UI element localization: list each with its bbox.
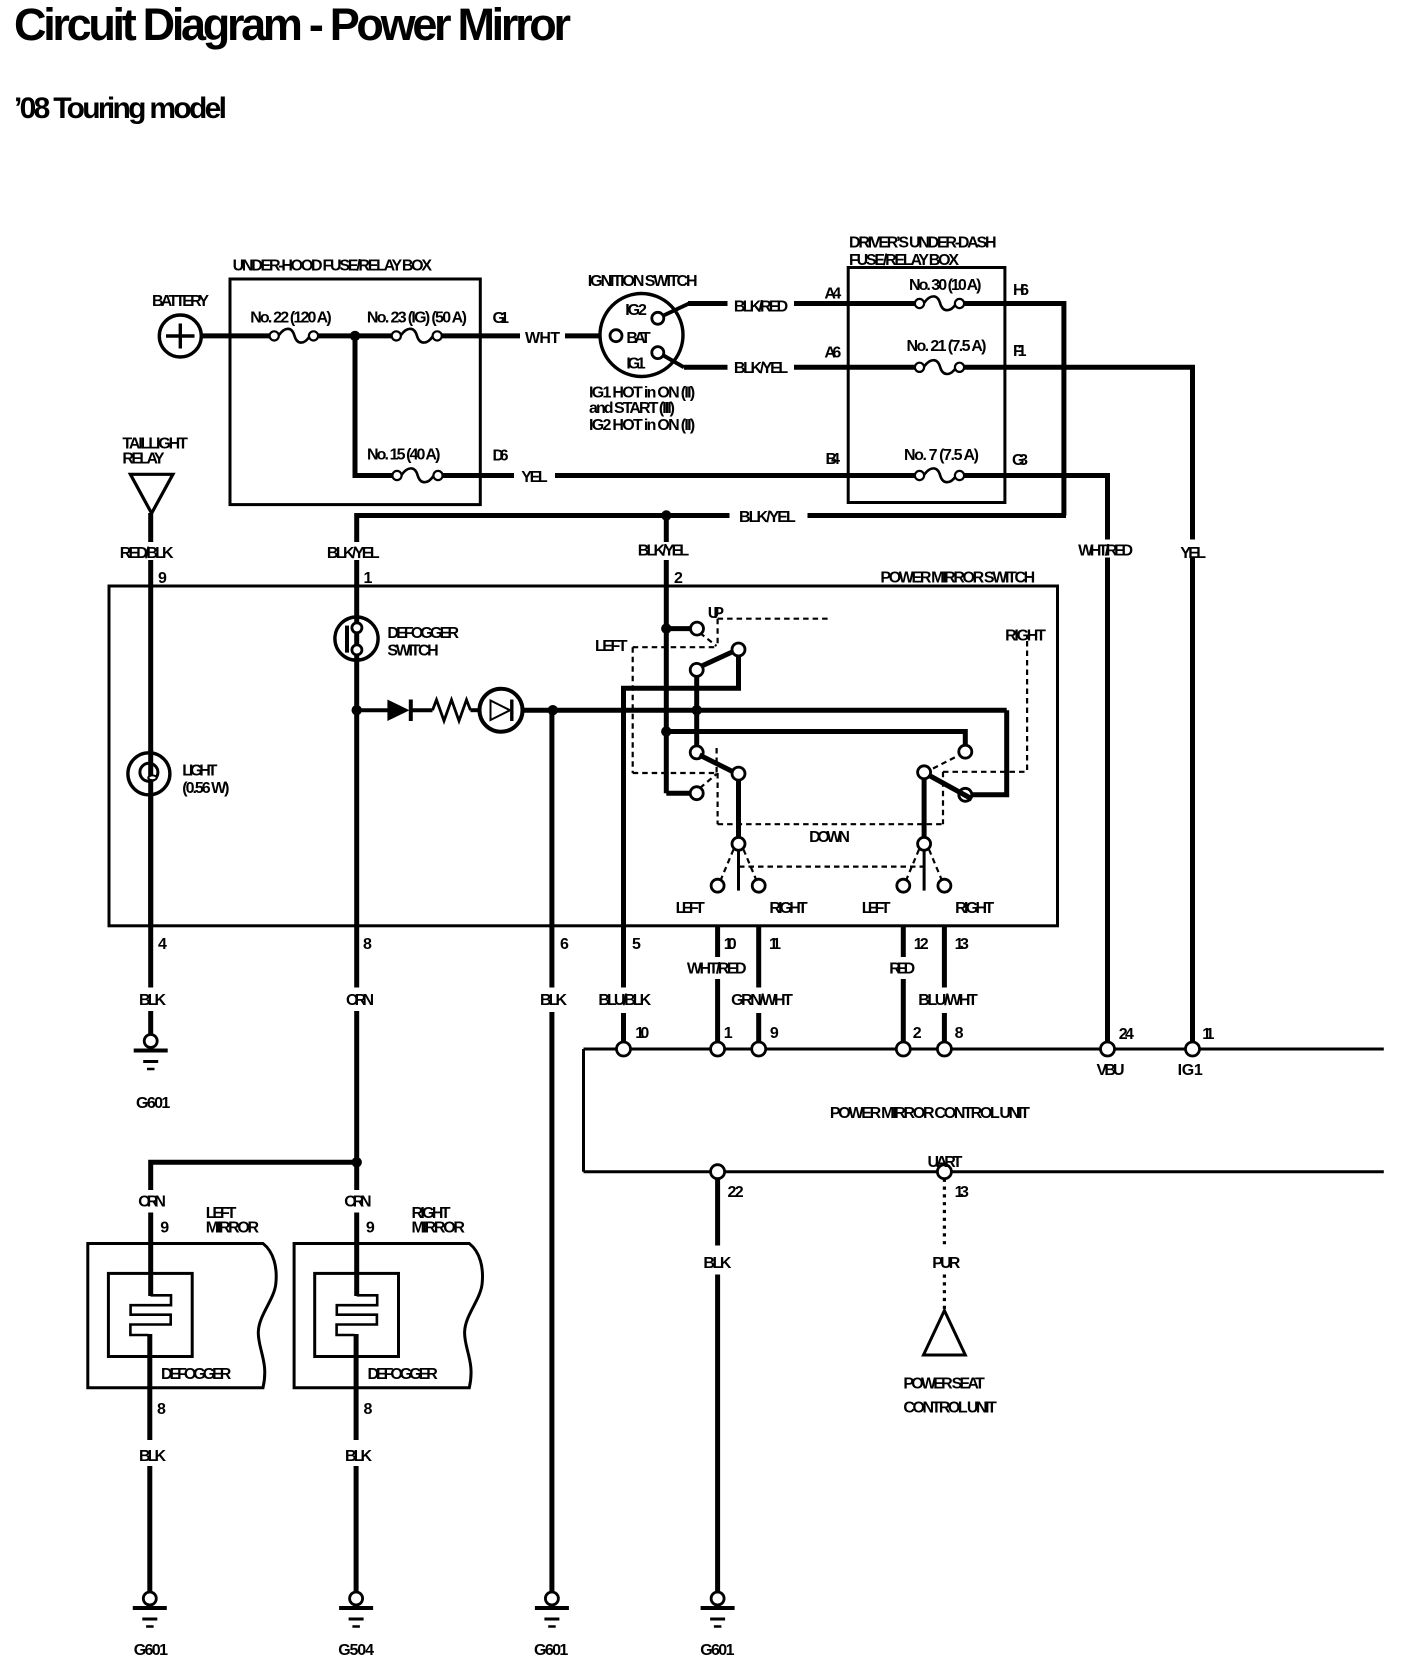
- svg-text:4: 4: [158, 936, 167, 953]
- svg-text:9: 9: [366, 1220, 375, 1237]
- terminal pin24 VBU (control unit): [1101, 1042, 1115, 1056]
- contact C (upper arm pivot): [690, 663, 703, 676]
- left mirror defogger element box: [108, 1273, 192, 1356]
- wire LED line corner to contact F': [972, 710, 1007, 795]
- svg-text:LIGHT: LIGHT: [182, 762, 217, 779]
- fuse No.22 (120 A): [270, 329, 319, 343]
- ground G601 (light): [134, 1035, 168, 1070]
- svg-text:ORN: ORN: [344, 1194, 371, 1211]
- svg-text:11: 11: [1202, 1026, 1214, 1043]
- power mirror switch box: [109, 586, 1058, 926]
- svg-text:CONTROL UNIT: CONTROL UNIT: [903, 1400, 997, 1417]
- svg-text:WHT: WHT: [525, 330, 560, 347]
- ground G601 (pin22): [701, 1592, 735, 1627]
- contact H4 RIGHT: [938, 879, 951, 892]
- wire fuse23-junction down to fuse No.15: [353, 336, 358, 476]
- svg-text:RIGHT: RIGHT: [1005, 628, 1046, 645]
- defogger switch: [335, 617, 378, 660]
- svg-text:’08 Touring model: ’08 Touring model: [14, 92, 227, 125]
- svg-text:LEFT: LEFT: [862, 900, 891, 917]
- terminal pin1 (control unit): [711, 1042, 725, 1056]
- svg-text:2: 2: [674, 570, 683, 587]
- dashed selector V (left): [721, 850, 734, 881]
- svg-text:BATTERY: BATTERY: [152, 293, 209, 310]
- svg-text:No. 30 (10 A): No. 30 (10 A): [909, 277, 982, 294]
- junction LED output / left switch stem: [692, 705, 702, 715]
- ground G601 (left mirror): [133, 1592, 167, 1627]
- wire into right defogger: [354, 1244, 359, 1297]
- power mirror control unit: [584, 1049, 1384, 1172]
- selector pivot G' (right): [918, 837, 931, 850]
- svg-text:9: 9: [160, 1220, 169, 1237]
- left mirror box: [88, 1244, 276, 1388]
- dashed LEFT rocker box: [633, 646, 718, 648]
- svg-text:RIGHT: RIGHT: [955, 900, 994, 917]
- junction pin2 wire / right switch feed: [661, 726, 671, 736]
- selector pivot G (left): [732, 837, 745, 850]
- wire IG1 BLK/YEL to under-dash A6: [684, 365, 728, 370]
- wire PUR UART dotted to power seat control unit: [943, 1179, 946, 1309]
- svg-text:No. 15 (40 A): No. 15 (40 A): [367, 447, 440, 464]
- wire out of left defogger: [147, 1334, 152, 1440]
- svg-text:No. 22 (120 A): No. 22 (120 A): [250, 309, 332, 326]
- junction pin1 wire / diode branch: [352, 705, 362, 715]
- svg-text:BAT: BAT: [626, 330, 650, 347]
- svg-text:2: 2: [913, 1025, 922, 1042]
- contact F (lower right): [732, 767, 745, 780]
- svg-text:No. 7 (7.5 A): No. 7 (7.5 A): [904, 447, 979, 464]
- dashed alternate position upper-left contact: [700, 633, 717, 646]
- svg-text:9: 9: [770, 1025, 779, 1042]
- selector blade G: [737, 850, 740, 890]
- svg-text:UART: UART: [928, 1154, 963, 1171]
- fuse No.30 (10 A): [915, 296, 964, 310]
- resistor: [412, 700, 471, 721]
- svg-text:LEFT: LEFT: [595, 638, 628, 655]
- fuse No.21 (7.5 A): [915, 360, 964, 374]
- junction bus to pin2 wire: [661, 510, 671, 520]
- svg-text:12: 12: [914, 936, 929, 953]
- svg-text:1: 1: [724, 1025, 733, 1042]
- svg-text:11: 11: [769, 936, 781, 953]
- svg-text:BLK: BLK: [139, 1448, 166, 1465]
- wire BLK/YEL bus to switch pin2: [664, 516, 669, 543]
- svg-text:BLK/YEL: BLK/YEL: [327, 545, 380, 562]
- dashed link DOWN bar to right rocker: [942, 772, 944, 824]
- contact F' (lower, right switch): [959, 788, 972, 801]
- svg-text:G601: G601: [534, 1642, 568, 1659]
- fuse No.15 (40 A): [392, 468, 442, 482]
- svg-text:8: 8: [363, 936, 372, 953]
- wire H6 to bus corner: [964, 304, 1064, 516]
- wire ORN branch to left mirror: [151, 1162, 357, 1190]
- terminal pin2 (control unit): [896, 1042, 910, 1056]
- dashed UP linkage: [718, 618, 829, 620]
- svg-text:RIGHT: RIGHT: [769, 900, 808, 917]
- dashed link to DOWN bar: [716, 773, 718, 824]
- terminal pin8 (control unit): [937, 1042, 951, 1056]
- svg-text:A6: A6: [824, 345, 841, 362]
- svg-text:MIRROR: MIRROR: [412, 1220, 466, 1237]
- dashed DOWN bar: [718, 823, 943, 825]
- wire G1 WHT to ignition BAT: [442, 333, 520, 338]
- wire fuse22 to fuse23: [318, 333, 392, 338]
- dashed alternate position lower-left contact: [700, 774, 717, 788]
- left switch lower arm E to F: [700, 755, 745, 778]
- svg-text:IG1: IG1: [626, 355, 645, 372]
- svg-text:BLK/YEL: BLK/YEL: [638, 543, 690, 560]
- svg-text:ORN: ORN: [138, 1194, 166, 1211]
- wire pin4 BLK to ground: [148, 1011, 153, 1035]
- svg-text:H6: H6: [1013, 282, 1029, 299]
- ground G601 (pin6): [535, 1592, 569, 1627]
- illumination LED: [471, 689, 523, 732]
- right mirror box: [294, 1244, 482, 1388]
- dashed selector V (right): [906, 850, 919, 881]
- svg-text:FUSE/RELAY BOX: FUSE/RELAY BOX: [849, 252, 959, 269]
- battery: [159, 315, 201, 357]
- svg-text:MIRROR: MIRROR: [206, 1220, 260, 1237]
- junction ORN split: [352, 1157, 362, 1167]
- contact B (upper right): [732, 643, 745, 656]
- wire D6 YEL to under-dash B4: [443, 473, 514, 478]
- diode: [360, 700, 411, 722]
- wire E' down to selector G': [922, 779, 927, 837]
- terminal pin22 (control unit bottom): [711, 1165, 725, 1179]
- svg-text:DEFOGGER: DEFOGGER: [368, 1366, 439, 1383]
- svg-text:BLK: BLK: [703, 1255, 731, 1272]
- wire BLK/YEL corner to contact D: [666, 791, 690, 796]
- svg-text:Circuit Diagram - Power Mirror: Circuit Diagram - Power Mirror: [14, 0, 571, 50]
- svg-text:G504: G504: [338, 1642, 374, 1659]
- svg-text:(0.56 W): (0.56 W): [182, 780, 229, 797]
- svg-text:B4: B4: [826, 451, 841, 468]
- wire pin12 RED to control unit: [901, 926, 906, 957]
- svg-text:BLK/RED: BLK/RED: [734, 299, 788, 316]
- selector blade G': [923, 850, 926, 890]
- power seat control unit symbol: [924, 1311, 966, 1356]
- svg-text:IG2: IG2: [625, 302, 647, 319]
- svg-text:POWER MIRROR CONTROL UNIT: POWER MIRROR CONTROL UNIT: [830, 1105, 1030, 1122]
- svg-text:IGNITION SWITCH: IGNITION SWITCH: [588, 273, 698, 290]
- svg-text:RED: RED: [889, 961, 915, 978]
- terminal pin11 IG1 (control unit): [1186, 1042, 1200, 1056]
- svg-text:LEFT: LEFT: [676, 900, 705, 917]
- wire pin10 WHT/RED to control unit: [715, 926, 720, 957]
- svg-text:RELAY: RELAY: [122, 451, 165, 468]
- svg-text:BLK/YEL: BLK/YEL: [739, 509, 796, 526]
- contact H2 RIGHT: [752, 879, 765, 892]
- svg-text:A4: A4: [824, 285, 841, 302]
- contact D (down, left mirror): [690, 787, 703, 800]
- svg-text:G601: G601: [136, 1095, 170, 1112]
- ignition switch: [600, 294, 689, 377]
- svg-text:G601: G601: [700, 1642, 734, 1659]
- svg-text:13: 13: [955, 936, 969, 953]
- fuse No.7 (7.5 A): [915, 468, 964, 482]
- wire F1 YEL down to control unit IG1: [964, 367, 1193, 539]
- contact B' (upper, right switch): [959, 745, 972, 758]
- wire B down-left to pin5: [624, 656, 739, 926]
- wire ORN to right mirror: [354, 1162, 359, 1190]
- svg-text:DRIVER’S UNDER-DASH: DRIVER’S UNDER-DASH: [849, 235, 997, 252]
- svg-text:8: 8: [157, 1401, 166, 1418]
- under-hood fuse/relay box: [230, 279, 480, 505]
- svg-text:IG2 HOT in ON (II): IG2 HOT in ON (II): [589, 417, 695, 434]
- svg-text:G1: G1: [493, 310, 510, 327]
- wire pin13 BLU/WHT to control unit: [942, 926, 947, 988]
- svg-text:D6: D6: [493, 448, 509, 465]
- svg-text:and START (III): and START (III): [589, 400, 675, 417]
- light (0.56 W): [128, 750, 170, 926]
- svg-text:9: 9: [158, 570, 167, 587]
- svg-text:8: 8: [364, 1401, 373, 1418]
- wire jct1 to contact A: [661, 623, 671, 633]
- svg-text:10: 10: [724, 936, 737, 953]
- dashed selector linkage bar: [739, 865, 925, 867]
- svg-text:BLK/YEL: BLK/YEL: [734, 360, 789, 377]
- terminal pin9 (control unit): [752, 1042, 766, 1056]
- svg-text:IG1 HOT in ON (II): IG1 HOT in ON (II): [589, 384, 695, 401]
- svg-text:POWER SEAT: POWER SEAT: [903, 1376, 985, 1393]
- svg-text:F1: F1: [1013, 343, 1027, 360]
- dashed alternate position right contact: [933, 756, 958, 769]
- svg-text:RED/BLK: RED/BLK: [120, 545, 174, 562]
- contact E (lower arm pivot): [690, 746, 703, 759]
- taillight relay: [130, 474, 173, 513]
- contact H1 LEFT: [711, 879, 724, 892]
- wire to fuse No.15: [353, 473, 393, 478]
- svg-text:YEL: YEL: [1180, 545, 1206, 562]
- svg-text:DEFOGGER: DEFOGGER: [161, 1366, 232, 1383]
- svg-text:WHT/RED: WHT/RED: [1078, 543, 1133, 560]
- svg-text:22: 22: [728, 1184, 744, 1201]
- right switch arm E' to F': [928, 775, 973, 800]
- driver's under-dash fuse/relay box: [848, 268, 1005, 503]
- svg-text:PUR: PUR: [932, 1255, 960, 1272]
- pivot E' (right switch): [918, 766, 931, 779]
- junction LED output / pin6 BLK: [548, 705, 558, 715]
- svg-text:G601: G601: [134, 1642, 168, 1659]
- svg-text:13: 13: [955, 1184, 969, 1201]
- svg-text:WHT/RED: WHT/RED: [687, 961, 747, 978]
- svg-text:1: 1: [364, 570, 373, 587]
- left defogger element ribbon: [130, 1295, 171, 1335]
- svg-text:10: 10: [635, 1025, 649, 1042]
- wire RED/BLK taillight relay to switch pin9: [148, 513, 153, 542]
- svg-text:6: 6: [560, 936, 569, 953]
- wire right switch feed to contact B': [666, 732, 965, 746]
- svg-text:SWITCH: SWITCH: [387, 642, 438, 659]
- wire IG2 BLK/RED to under-dash A4: [688, 301, 728, 306]
- svg-text:YEL: YEL: [521, 469, 548, 486]
- svg-text:POWER MIRROR SWITCH: POWER MIRROR SWITCH: [880, 569, 1035, 586]
- contact A (up, left mirror): [691, 622, 704, 635]
- svg-text:BLU/BLK: BLU/BLK: [598, 992, 651, 1009]
- svg-text:GRN/WHT: GRN/WHT: [731, 992, 793, 1009]
- wire out of right defogger: [354, 1334, 359, 1440]
- svg-text:DEFOGGER: DEFOGGER: [387, 625, 459, 642]
- svg-text:8: 8: [955, 1025, 964, 1042]
- wire G3 WHT/RED down to control unit VBU: [964, 476, 1108, 540]
- svg-text:ORN: ORN: [346, 992, 374, 1009]
- junction between fuse22/fuse23: [350, 331, 360, 341]
- svg-text:BLK: BLK: [139, 992, 166, 1009]
- wire pin11 GRN/WHT to control unit: [756, 926, 761, 988]
- wire F down to selector G: [736, 780, 741, 837]
- svg-text:BLU/WHT: BLU/WHT: [918, 992, 978, 1009]
- right defogger element ribbon: [337, 1295, 378, 1335]
- wire into left defogger: [148, 1244, 153, 1297]
- wire LED output across switch: [523, 708, 1007, 713]
- wire BLK/YEL bus to switch pin1: [354, 513, 359, 542]
- svg-text:UNDER-HOOD FUSE/RELAY BOX: UNDER-HOOD FUSE/RELAY BOX: [233, 257, 433, 274]
- svg-text:5: 5: [632, 936, 641, 953]
- BLK/YEL bus wire: [357, 513, 730, 518]
- svg-text:No. 23 (IG) (50 A): No. 23 (IG) (50 A): [367, 309, 467, 326]
- wire BLK pin6 down to ground: [549, 710, 554, 987]
- right mirror defogger element box: [315, 1273, 399, 1356]
- ground G504 (right mirror): [339, 1592, 373, 1627]
- svg-text:BLK: BLK: [345, 1448, 372, 1465]
- left switch upper arm C to B: [700, 647, 744, 667]
- svg-text:VBU: VBU: [1097, 1062, 1125, 1079]
- left switch stem C to E: [694, 676, 699, 746]
- wire pin22 BLK to ground: [715, 1179, 720, 1246]
- wire pin8 ORN down to mirror junction: [354, 1011, 359, 1162]
- svg-text:IG1: IG1: [1178, 1062, 1203, 1079]
- contact H3 LEFT: [897, 879, 910, 892]
- svg-text:G3: G3: [1012, 452, 1028, 469]
- svg-text:DOWN: DOWN: [809, 829, 850, 846]
- svg-text:24: 24: [1119, 1026, 1134, 1043]
- svg-text:No. 21 (7.5 A): No. 21 (7.5 A): [907, 338, 987, 355]
- wire battery to fuse No.22: [202, 333, 271, 338]
- terminal pin13 UART (control unit bottom): [937, 1165, 951, 1179]
- fuse No.23 (IG) (50 A): [392, 329, 442, 343]
- svg-text:BLK: BLK: [540, 992, 567, 1009]
- terminal pin10 (control unit): [617, 1042, 631, 1056]
